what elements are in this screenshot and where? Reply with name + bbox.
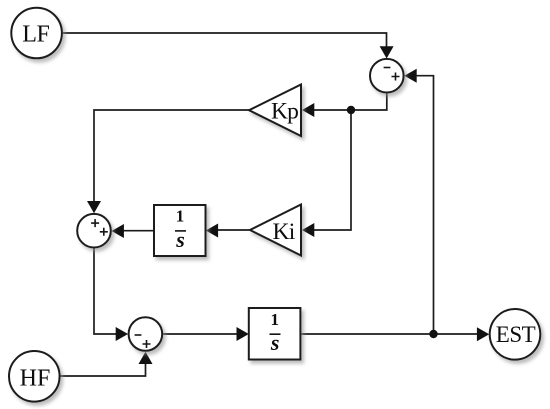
svg-text:HF: HF bbox=[20, 366, 51, 392]
svg-text:LF: LF bbox=[22, 22, 49, 48]
svg-text:s: s bbox=[175, 227, 185, 252]
svg-text:s: s bbox=[270, 330, 280, 355]
svg-text:Kp: Kp bbox=[271, 99, 298, 125]
svg-text:1: 1 bbox=[270, 310, 279, 329]
svg-text:EST: EST bbox=[496, 322, 536, 347]
svg-text:Ki: Ki bbox=[273, 219, 296, 245]
svg-text:1: 1 bbox=[176, 207, 185, 226]
